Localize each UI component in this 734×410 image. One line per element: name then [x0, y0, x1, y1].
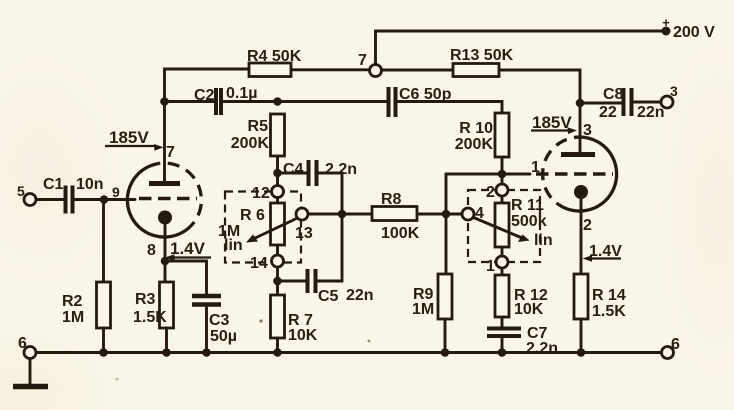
wire pin14 lead	[276, 245, 279, 295]
wire R4 to node 7	[291, 68, 370, 71]
node 200V terminal dot	[662, 27, 671, 36]
junction riser mid	[338, 210, 347, 219]
resistor R14	[574, 274, 588, 319]
grid V2 dashed	[536, 172, 613, 175]
svg-text:2: 2	[583, 217, 592, 234]
wiper arrow R11	[474, 218, 522, 238]
junction anode node V2	[576, 99, 585, 108]
resistor R2	[97, 282, 111, 328]
wire cathode node to C3	[165, 261, 207, 294]
svg-text:R 11: R 11	[511, 197, 544, 214]
potentiometer R11 body	[495, 203, 509, 247]
svg-text:lin: lin	[534, 232, 553, 249]
svg-text:185V: 185V	[532, 113, 572, 132]
ground symbol bar	[13, 384, 48, 390]
svg-text:7: 7	[358, 52, 367, 69]
junction R5 top	[273, 97, 282, 106]
svg-text:R 10: R 10	[459, 120, 493, 137]
pin 14 circle	[272, 255, 284, 267]
wire R9 column vertical	[445, 174, 448, 274]
pin 12 circle	[272, 186, 284, 198]
cathode V1 dot	[158, 211, 172, 225]
wire C3 to rail	[205, 307, 208, 353]
wire R7 to rail	[276, 338, 279, 353]
svg-text:C5: C5	[318, 288, 339, 305]
wire R11 to pin 1	[501, 247, 504, 256]
underline arrow 185V V2	[531, 129, 569, 131]
triode V1 envelope solid arc	[127, 164, 185, 237]
junction R3 rail	[162, 348, 171, 357]
terminal 5	[24, 194, 36, 206]
junction C3 rail	[202, 348, 211, 357]
junction R14 rail	[577, 348, 586, 357]
underline 1.4V V2	[590, 257, 621, 259]
svg-text:8: 8	[147, 242, 156, 259]
wire top supply rail	[376, 30, 667, 33]
wire C6 to R10	[397, 102, 502, 114]
junction R2 rail	[99, 348, 108, 357]
wiper arrow R6	[252, 219, 297, 240]
capacitor C3	[192, 294, 221, 299]
wire R3 to rail	[165, 328, 168, 353]
junction R2 tap	[100, 195, 109, 204]
anode V1 lead	[163, 102, 166, 182]
terminal 6 right	[662, 347, 674, 359]
svg-text:7: 7	[166, 144, 175, 161]
junction C4 node	[273, 169, 282, 178]
svg-text:0.1µ: 0.1µ	[226, 85, 257, 102]
wire node 7 to R13	[382, 69, 454, 72]
svg-text:R13 50K: R13 50K	[450, 47, 514, 64]
cathode V2 lead	[580, 192, 583, 274]
svg-text:10n: 10n	[76, 176, 104, 193]
resistor R3	[160, 282, 174, 328]
underline 1.4V V1	[172, 256, 211, 258]
svg-text:R 14: R 14	[592, 287, 626, 304]
grid V1 dashed	[139, 197, 197, 200]
underline arrow 185V V1	[105, 145, 156, 147]
pin 1 circle	[496, 256, 508, 268]
svg-text:1.4V: 1.4V	[170, 239, 206, 258]
svg-text:10K: 10K	[288, 327, 318, 344]
ground symbol stem	[29, 359, 32, 386]
cathode V1 lead	[164, 218, 167, 283]
resistor R13	[453, 64, 499, 77]
junction C2/anode V1	[160, 97, 169, 106]
resistor R8	[372, 207, 417, 221]
svg-text:5: 5	[17, 183, 25, 199]
svg-text:1.5K: 1.5K	[592, 303, 626, 320]
svg-text:R4 50K: R4 50K	[247, 48, 302, 65]
svg-text:3: 3	[670, 83, 678, 99]
svg-text:R5: R5	[248, 118, 269, 135]
svg-text:50µ: 50µ	[210, 328, 237, 345]
svg-text:2: 2	[486, 184, 495, 201]
wire R13 to anode node V2	[499, 70, 580, 103]
paper speck	[368, 340, 371, 343]
svg-text:R3: R3	[135, 291, 156, 308]
pin 2 circle	[496, 184, 508, 196]
svg-text:185V: 185V	[109, 128, 149, 147]
arrowhead 1.4V V1	[165, 254, 175, 261]
junction cathode V1	[161, 257, 170, 266]
wire C2 row left	[165, 100, 215, 103]
terminal 3	[661, 96, 673, 108]
resistor R12	[495, 275, 509, 317]
wire grid row V2	[446, 173, 530, 176]
triode V2 envelope solid arc	[558, 138, 616, 211]
triode V1 envelope dashed arc	[158, 163, 201, 230]
svg-text:6: 6	[18, 335, 27, 352]
potentiometer R6 body	[271, 203, 285, 245]
resistor R5	[271, 114, 285, 156]
svg-text:22n: 22n	[346, 287, 374, 304]
wire pin1 to R12	[501, 268, 504, 275]
svg-text:22n: 22n	[637, 104, 665, 121]
svg-text:6: 6	[671, 336, 680, 353]
svg-text:R2: R2	[62, 293, 83, 310]
svg-text:9: 9	[112, 184, 120, 200]
wire R14 to rail	[580, 319, 583, 353]
wire R2 lead	[102, 200, 105, 283]
wiper 4 circle	[462, 208, 474, 220]
svg-text:lin: lin	[224, 237, 243, 254]
svg-text:1M: 1M	[62, 309, 84, 326]
paper speck	[116, 378, 119, 381]
wire R9 to rail	[444, 319, 447, 353]
svg-text:22: 22	[599, 104, 617, 121]
capacitor C2	[216, 88, 221, 115]
node 7	[370, 65, 382, 77]
svg-text:R 6: R 6	[240, 207, 265, 224]
wire C1 to grid V1	[75, 198, 136, 201]
wire riser from node 7 to top rail	[374, 31, 377, 65]
wire terminal 5 to C1	[36, 198, 64, 201]
junction C5 node	[273, 277, 282, 286]
svg-text:12: 12	[252, 185, 270, 202]
junction C7 rail	[498, 348, 507, 357]
junction R10/pin2 node	[498, 170, 507, 179]
svg-text:1M: 1M	[412, 301, 434, 318]
svg-text:R8: R8	[381, 191, 402, 208]
svg-text:10K: 10K	[514, 301, 544, 318]
svg-text:C3: C3	[209, 312, 230, 329]
pot R6 dashed box	[225, 192, 301, 263]
wire anode V1 to R4	[165, 69, 250, 102]
wire pin12 to R6	[276, 198, 279, 204]
wire C7 to rail	[501, 338, 504, 353]
arrowhead 1.4V V2	[583, 255, 593, 262]
ground rail	[36, 351, 662, 354]
wire C4 to riser	[319, 173, 343, 281]
wire R12 to C7	[501, 317, 504, 327]
svg-text:200 V: 200 V	[673, 24, 715, 41]
svg-text:C2: C2	[194, 87, 215, 104]
resistor R7	[271, 295, 285, 338]
svg-text:C1: C1	[43, 176, 64, 193]
anode V2 bar	[561, 152, 595, 157]
svg-text:+: +	[662, 15, 670, 30]
wire R2 to rail	[102, 328, 105, 353]
capacitor C8	[624, 88, 632, 116]
anode V1 bar	[149, 181, 180, 186]
svg-text:1.5K: 1.5K	[133, 309, 167, 326]
triode V2 envelope dashed arc	[543, 137, 586, 204]
capacitor C6	[389, 87, 396, 117]
wire R10 to pin 2	[501, 157, 504, 184]
svg-text:C8: C8	[603, 86, 624, 103]
wire C2 to C6	[223, 100, 388, 103]
svg-text:13: 13	[295, 225, 313, 242]
resistor R4	[249, 63, 291, 77]
wire C8 row	[580, 102, 622, 105]
junction R9 column mid	[442, 210, 451, 219]
capacitor C4	[309, 160, 317, 186]
pot R11 dashed box	[468, 190, 540, 262]
junction R7 rail	[273, 348, 282, 357]
terminal 6 left	[24, 347, 36, 359]
capacitor C7	[487, 327, 521, 331]
svg-text:1: 1	[486, 258, 495, 275]
wiper 13 wire to riser	[308, 213, 372, 216]
wire R8 to wiper 4	[417, 213, 462, 216]
svg-text:500k: 500k	[511, 213, 547, 230]
capacitor C1	[66, 186, 73, 214]
wire C5 to riser	[318, 280, 343, 283]
svg-text:100K: 100K	[381, 225, 420, 242]
wire C8 to terminal 3	[634, 101, 662, 104]
anode V2 lead	[579, 103, 582, 152]
paper speck	[259, 319, 262, 322]
cathode V2 dot	[574, 185, 588, 199]
svg-text:200K: 200K	[455, 136, 494, 153]
svg-text:2.2n: 2.2n	[526, 340, 558, 357]
wire R5 to C4 node	[276, 156, 279, 186]
svg-text:200K: 200K	[231, 135, 270, 152]
wire C4 left	[278, 172, 307, 175]
wiper 13 circle	[296, 208, 308, 220]
junction R9 rail	[441, 348, 450, 357]
resistor R9	[438, 274, 452, 319]
svg-text:14: 14	[250, 255, 268, 272]
resistor R10	[495, 113, 509, 157]
svg-text:C4: C4	[283, 161, 304, 178]
wire C5 left	[278, 280, 306, 283]
wire pin2 to R11	[501, 196, 504, 203]
capacitor C5	[308, 269, 316, 293]
